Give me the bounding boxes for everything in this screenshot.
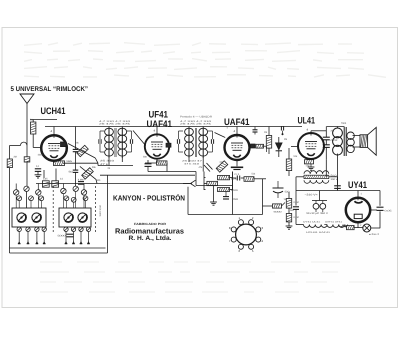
heater chain group 2 — [324, 225, 347, 228]
wire UY41 anode — [357, 191, 359, 198]
wire diode column — [288, 148, 290, 176]
label tube UY41 — [348, 179, 367, 190]
capacitor C13 tone — [273, 181, 284, 198]
wire audio link — [263, 179, 273, 206]
title KANYON-POLISTRON — [113, 193, 185, 202]
pin box UCH41 — [61, 142, 67, 147]
electrolytic C18 — [313, 201, 319, 213]
wire rail stub left — [30, 120, 57, 123]
tube UY41 — [346, 197, 370, 222]
trimmer bank row A — [14, 190, 42, 195]
wire trimmer feeds — [16, 184, 84, 190]
svg-text:2M: 2M — [14, 156, 17, 159]
diode D1 — [276, 137, 282, 157]
wire electrolytic top — [312, 191, 327, 201]
wire right rail — [379, 191, 381, 229]
label -310V — [305, 194, 319, 197]
trimmer bank 2 row B — [64, 196, 88, 202]
capacitor C12b — [235, 173, 241, 181]
capacitor C7 IF1 right — [127, 131, 133, 152]
svg-text:0,05: 0,05 — [385, 210, 393, 213]
wire detector links — [204, 172, 266, 191]
resistor R5 osc — [82, 168, 94, 179]
capacitor C16 rail — [377, 207, 393, 212]
resistor R7 82k — [218, 175, 239, 180]
wire R1 to tube — [33, 134, 41, 148]
tube UCH41 — [41, 135, 67, 161]
IF transformer T1 primary — [105, 127, 114, 166]
wire heater line — [296, 224, 304, 226]
svg-text:32+32 μF 350 V: 32+32 μF 350 V — [306, 212, 329, 215]
capacitor C14 coupling — [323, 127, 339, 177]
svg-text:UCH41: UCH41 — [41, 105, 66, 116]
volume control — [273, 203, 286, 214]
capacitor C5 — [78, 182, 84, 185]
electrolytic C19 — [320, 201, 326, 213]
label escala — [99, 205, 102, 217]
IF transformer T2 secondary — [199, 127, 208, 172]
values below T1 — [100, 160, 115, 166]
svg-text:300 V: 300 V — [331, 178, 339, 181]
wire B+ line — [296, 190, 380, 192]
wire speaker top — [353, 135, 361, 137]
capacitor C11 diag — [204, 163, 213, 172]
svg-text:UAF41: UAF41 — [147, 118, 173, 129]
label tube UAF41 second — [224, 116, 250, 127]
ground detector — [210, 186, 217, 206]
coil L4 — [78, 213, 87, 222]
svg-text:0,05: 0,05 — [43, 177, 48, 180]
capacitor C6 IF1 left — [99, 131, 104, 152]
svg-text:47 k 310: 47 k 310 — [184, 163, 200, 166]
wire UF41 bottom — [145, 159, 167, 172]
capacitor C8 — [145, 164, 152, 167]
pin box UF41 — [166, 143, 171, 147]
resistor R13 — [286, 199, 291, 209]
svg-text:1M: 1M — [264, 131, 267, 134]
svg-text:UCH41 UAF41: UCH41 UAF41 — [306, 231, 331, 234]
svg-text:● Esc.2: ● Esc.2 — [369, 233, 380, 236]
socket pins — [231, 220, 261, 250]
wire AVC bus — [36, 183, 192, 185]
wire C8 drop — [147, 160, 149, 172]
svg-text:2M: 2M — [284, 138, 287, 141]
capacitor C20 padder — [58, 234, 74, 237]
wire antenna trimmer drop — [26, 192, 28, 209]
capacitor C9 IF2 left — [177, 131, 183, 152]
svg-text:25 47k 25 47k: 25 47k 25 47k — [180, 123, 213, 126]
choke label — [331, 175, 339, 182]
heater chain group 1 — [304, 225, 328, 228]
wire B minus line — [188, 187, 263, 215]
svg-text:25 47k 25 47k: 25 47k 25 47k — [99, 123, 132, 126]
wire osc vertical low — [75, 172, 77, 186]
svg-text:25 310: 25 310 — [100, 160, 115, 163]
wire R11 stub — [268, 127, 270, 155]
values above T2 — [180, 120, 213, 126]
wire UL41 top — [307, 128, 327, 134]
faint bleed-through texture — [24, 43, 386, 292]
trimmer bank row B — [17, 196, 44, 201]
speaker voice coil — [360, 135, 368, 148]
resistor R4 osc — [77, 145, 89, 156]
resistor R8 grid — [207, 181, 218, 185]
speaker cone — [368, 127, 377, 155]
value 100 — [78, 179, 86, 182]
svg-text:UY41 UL41: UY41 UL41 — [303, 220, 321, 223]
ground under C2 — [35, 171, 42, 178]
wire UL41 grid left — [291, 146, 298, 148]
tube UAF41 — [225, 135, 250, 160]
wire UY41 to rail — [370, 209, 377, 211]
svg-text:25 310 47: 25 310 47 — [182, 160, 204, 163]
svg-text:5000: 5000 — [58, 235, 67, 238]
wire left drop upper — [10, 142, 27, 159]
label tube UL41 — [298, 115, 316, 126]
output transformer secondary — [347, 132, 354, 153]
svg-text:UL41: UL41 — [298, 115, 316, 126]
heater labels — [303, 220, 343, 234]
label tube UAF41 first — [147, 118, 173, 129]
connector fork — [183, 180, 196, 187]
capacitor C21 rail — [281, 126, 283, 135]
wire transformer bottom drop — [337, 156, 339, 185]
wire antenna lead — [26, 104, 28, 157]
trimmer bank 2 row A — [61, 186, 87, 195]
resistor R1 grid — [31, 122, 36, 134]
wire volume column — [286, 192, 293, 229]
svg-text:5000: 5000 — [274, 211, 283, 214]
capacitor antenna series — [24, 157, 30, 163]
output transformer core — [344, 127, 346, 156]
label R.H.A. Ltda — [129, 235, 172, 242]
svg-text:4,7 310 4,7 310: 4,7 310 4,7 310 — [99, 120, 132, 123]
capacitor C4 paper — [52, 181, 59, 187]
values below T2 — [182, 160, 204, 166]
svg-text:1000: 1000 — [38, 154, 44, 157]
tube UL41 — [298, 133, 324, 159]
value 50 — [285, 191, 291, 194]
svg-text:Pentodo 4 — UB41DR: Pentodo 4 — UB41DR — [180, 116, 212, 119]
values above T1 — [99, 120, 132, 126]
svg-text:0,5M: 0,5M — [294, 201, 299, 204]
tube UF41 — [145, 134, 169, 158]
resistor R10 diag — [216, 161, 228, 172]
resistor R2 left — [7, 159, 12, 168]
pin box UAF41 — [251, 144, 256, 148]
antenna — [20, 94, 34, 104]
wire ground bus bottom — [10, 247, 106, 249]
label Radiomanufacturas — [115, 227, 184, 236]
label 32+32 — [306, 212, 329, 215]
terminal pins box2 — [65, 232, 90, 245]
label 5 UNIVERSAL RIMLOCK — [11, 86, 89, 93]
svg-text:onda corta: onda corta — [99, 205, 102, 217]
label tube UCH41 — [41, 105, 66, 116]
svg-text:UAF41 UF41: UAF41 UF41 — [325, 220, 343, 223]
coil box 2 — [59, 208, 91, 227]
svg-text:UY41: UY41 — [348, 179, 367, 190]
svg-text:R. H. A., Ltda.: R. H. A., Ltda. — [129, 235, 172, 242]
wire UCH41 top — [51, 127, 55, 136]
wire bus y171 — [148, 172, 196, 176]
coil L1 — [17, 213, 26, 222]
wire speaker bottom — [353, 146, 361, 148]
component value labels — [14, 119, 363, 219]
wire B+ top rail — [45, 126, 302, 128]
wire trimmer drops — [16, 192, 85, 209]
wire mixer diagonal 1 — [68, 144, 95, 159]
wire UY41 bottom — [358, 222, 362, 227]
tube socket base diagram — [236, 224, 257, 245]
svg-text:4,7 310 4,7 310: 4,7 310 4,7 310 — [180, 120, 213, 123]
gang link dashed 1 — [52, 186, 54, 233]
wire osc vertical mid — [75, 152, 77, 170]
capacitor C17 — [290, 207, 299, 225]
resistor R14 — [286, 214, 291, 222]
coil box 1 — [12, 208, 46, 227]
terminal circles box2 — [64, 227, 91, 231]
label tube UF41 — [149, 109, 169, 120]
terminal pins box1 — [18, 232, 46, 245]
wire riser right of bus — [232, 172, 234, 215]
wire mixer diagonal 2 — [76, 127, 99, 164]
wire cathode row — [63, 163, 98, 165]
svg-text:0,02: 0,02 — [331, 139, 339, 142]
coil L2 — [32, 213, 41, 222]
gang link dashed 2 — [95, 186, 97, 233]
resistor R9b 5000 — [218, 188, 239, 193]
wire left drop lower — [9, 168, 11, 253]
svg-text:KANYON - POLISTRÓN: KANYON - POLISTRÓN — [113, 193, 185, 202]
svg-text:5 UNIVERSAL “RIMLOCK”: 5 UNIVERSAL “RIMLOCK” — [11, 86, 89, 93]
filter choke — [304, 171, 329, 184]
capacitor C12 250 — [223, 192, 239, 202]
wire UF41 grid diagonal — [133, 131, 146, 146]
resistor R16 heater — [347, 226, 355, 230]
wire osc diag lead — [80, 166, 97, 183]
svg-text:1M: 1M — [284, 198, 287, 201]
coil assembly enclosure — [10, 175, 108, 253]
wire choke left — [296, 177, 304, 206]
label fabricado por — [134, 222, 167, 226]
resistor R15 cathode UL41 — [305, 159, 315, 170]
resistor R6 cathode UF41 — [157, 161, 168, 165]
value 165 — [66, 160, 73, 163]
cathode box UY41 — [354, 214, 362, 218]
wire bus y175 — [100, 174, 195, 176]
wire antenna lead lower — [26, 162, 28, 186]
IF transformer T1 core — [115, 128, 116, 157]
wire IF1 bottom link — [98, 165, 133, 167]
capacitor C10 IF2 right — [208, 131, 214, 152]
resistor R11 det load — [266, 136, 271, 149]
wire B+ rail to transformer — [327, 126, 345, 128]
wire UAF41 grid diag — [215, 133, 226, 138]
wire link y185 — [196, 175, 233, 186]
output transformer primary — [333, 127, 343, 156]
note pentodo — [180, 116, 212, 119]
IF transformer T1 secondary — [118, 127, 127, 163]
capacitor C24 — [69, 170, 79, 173]
capacitor C2 — [35, 169, 41, 172]
svg-text:0,7M: 0,7M — [294, 216, 299, 219]
trimmer antenna — [24, 186, 29, 191]
terminal circles box1 — [17, 227, 46, 231]
wire to lamp — [354, 227, 363, 229]
label lamp — [369, 233, 380, 236]
svg-text:165: 165 — [66, 160, 73, 163]
capacitor C23 — [73, 149, 79, 151]
wire UF41 top — [154, 127, 158, 135]
svg-text:FABRICADO POR: FABRICADO POR — [134, 222, 167, 226]
wire UCH41 cathode drop — [44, 161, 56, 181]
wire UAF41 bottom — [231, 160, 243, 170]
svg-text:−310 V≈: −310 V≈ — [305, 194, 319, 197]
svg-text:7000: 7000 — [341, 122, 347, 125]
coil L3 — [64, 213, 73, 222]
wire lamp to rail — [371, 227, 380, 229]
wire UAF41 top — [234, 127, 238, 136]
resistor R9 51k — [244, 177, 254, 182]
capacitor C3 paper — [42, 181, 49, 187]
IF transformer T2 primary — [185, 127, 194, 163]
socket pin numbers — [229, 216, 264, 253]
capacitor C22 — [253, 127, 258, 135]
capacitor C15 — [334, 186, 341, 191]
resistor R17 anode — [256, 144, 267, 152]
svg-text:UAF41: UAF41 — [224, 116, 250, 127]
resistor R3 cathode UCH41 — [54, 161, 65, 166]
IF transformer T2 core — [195, 128, 196, 157]
resistor R12 — [286, 159, 291, 171]
pilot lamp — [363, 224, 371, 232]
wire choke right — [329, 177, 338, 191]
